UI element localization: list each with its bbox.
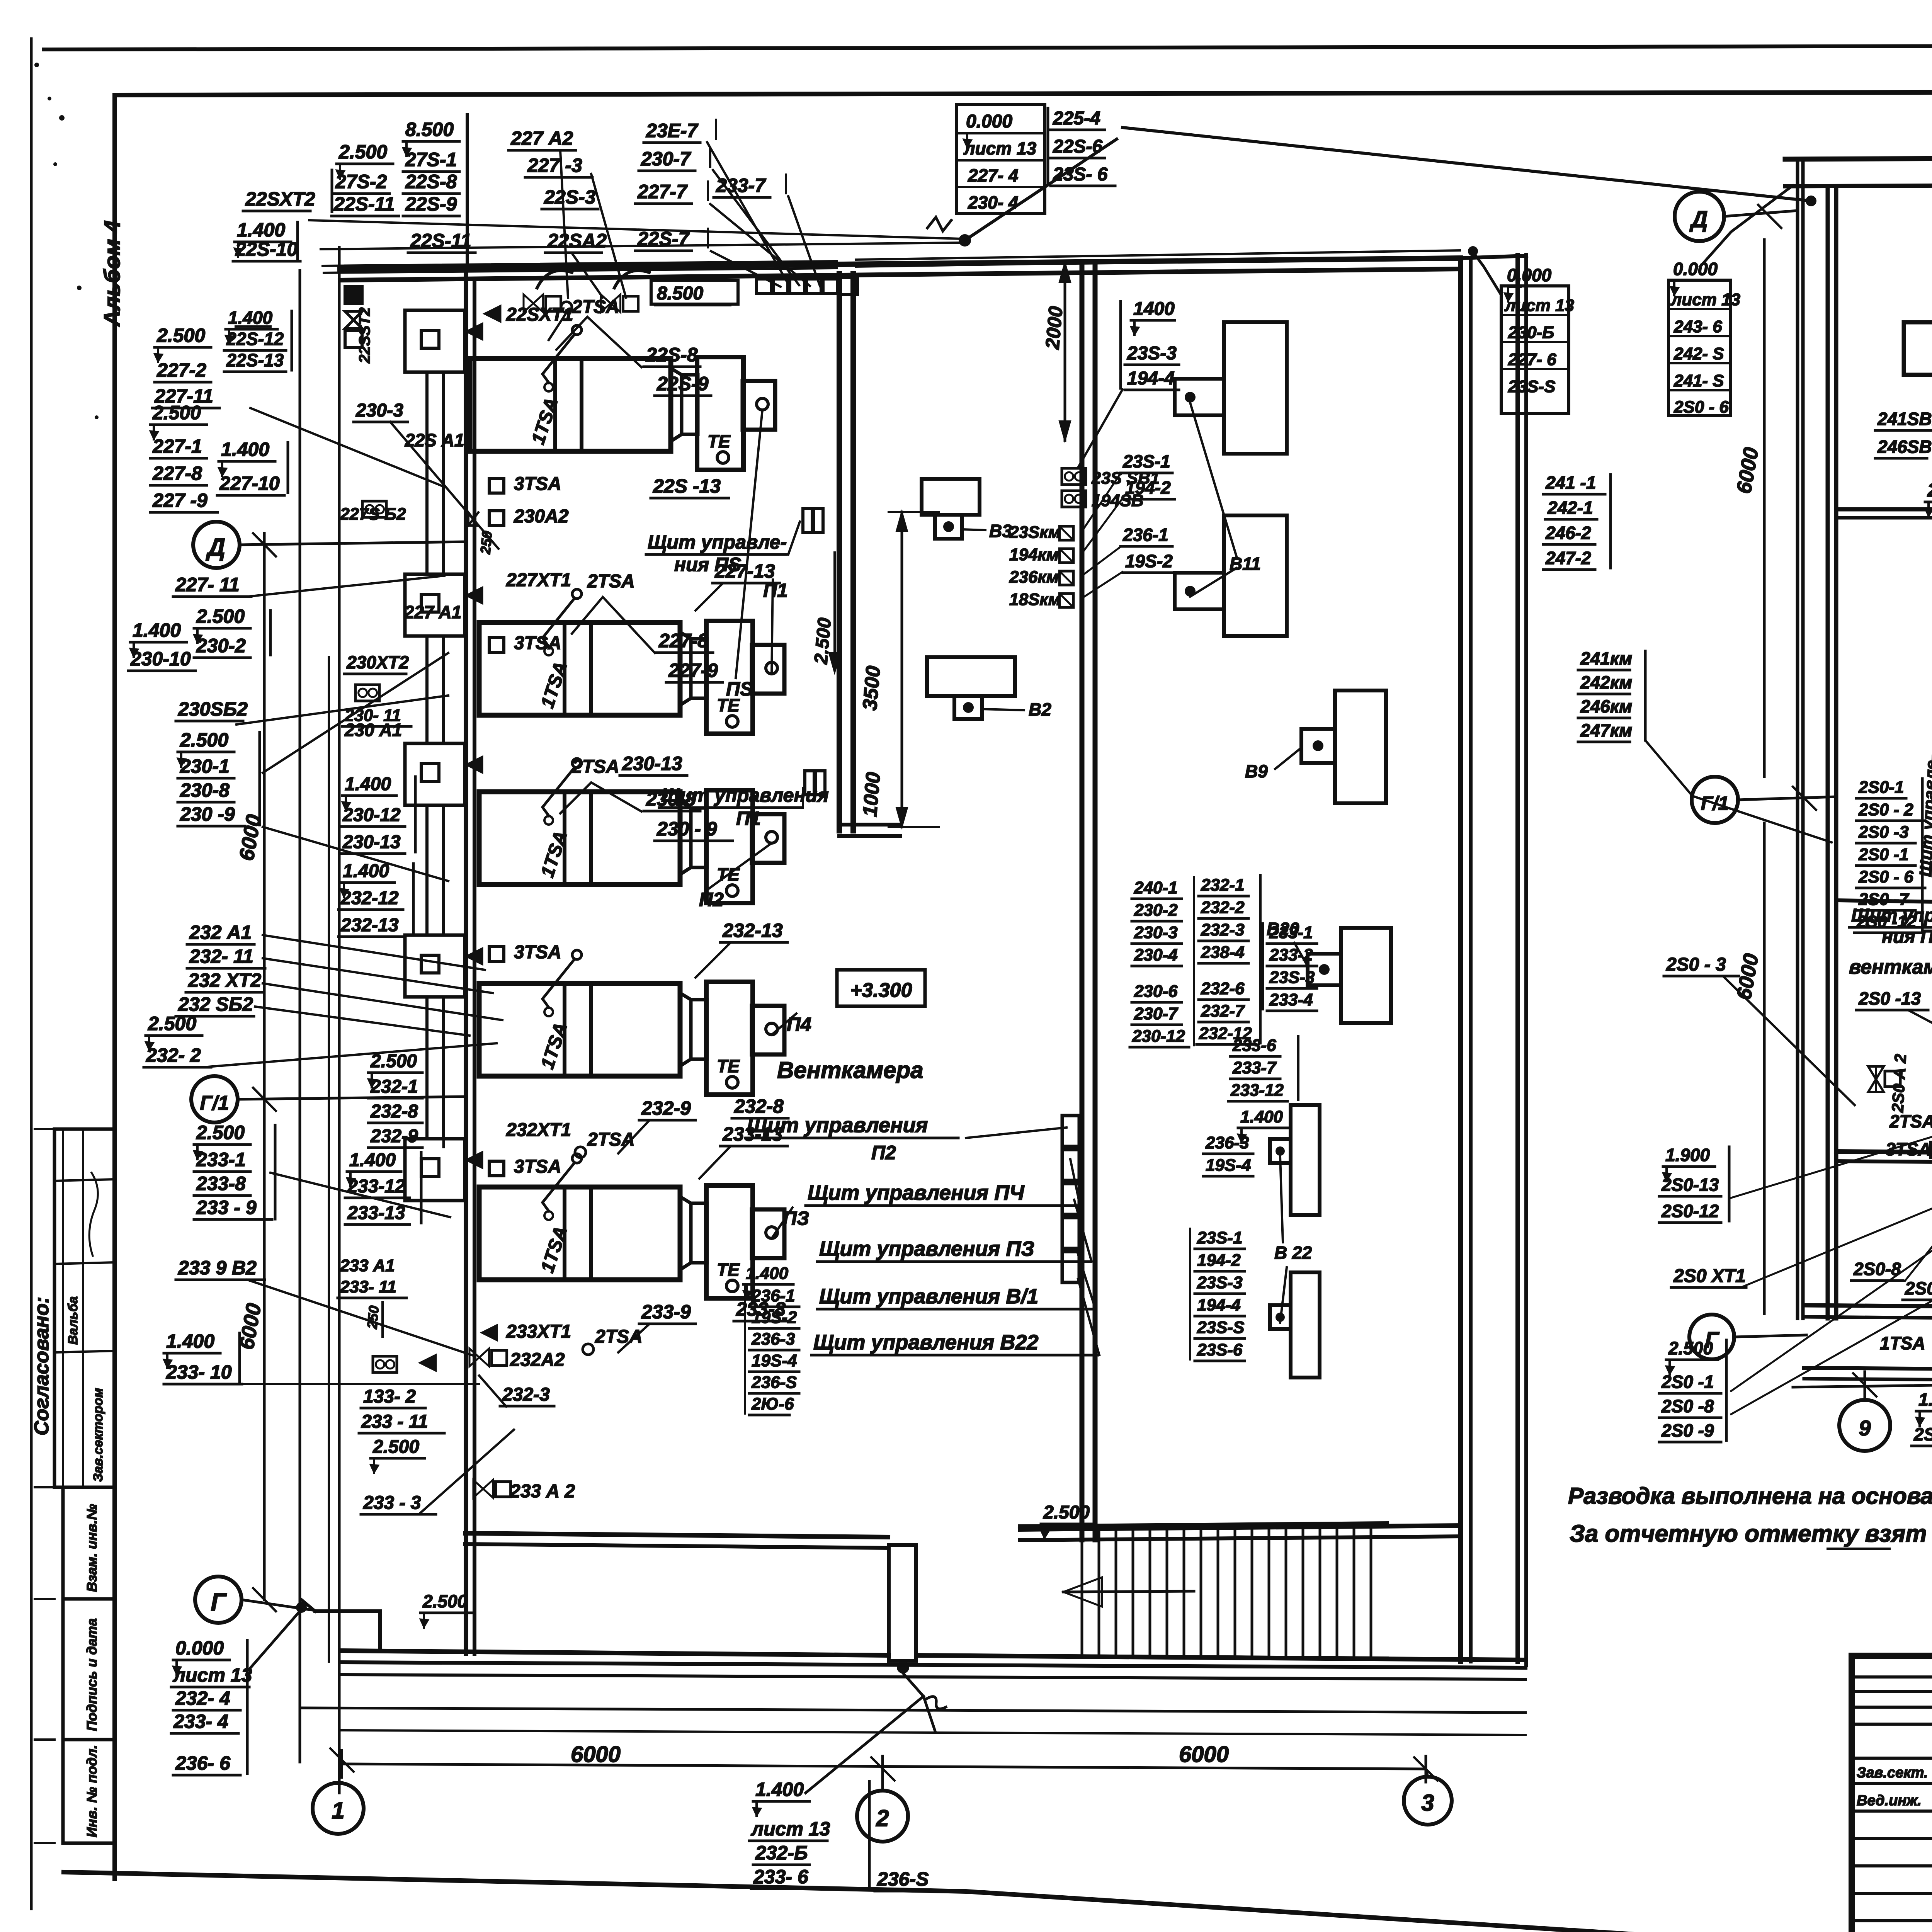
tray break symbol: [927, 217, 951, 231]
long leader verticals left margin: [299, 270, 301, 1762]
fan B11 lower: [1224, 515, 1287, 636]
svg-text:1.400: 1.400: [228, 308, 273, 328]
svg-text:233- 11: 233- 11: [340, 1277, 396, 1296]
svg-text:П2: П2: [871, 1142, 896, 1163]
svg-text:233-12: 233-12: [1230, 1081, 1284, 1100]
ink specks top left corner: [34, 63, 39, 67]
svg-text:236-1: 236-1: [751, 1286, 795, 1305]
stairs: [1020, 1523, 1387, 1526]
svg-text:22S-9: 22S-9: [405, 193, 457, 215]
svg-text:Щит управления В/1: Щит управления В/1: [819, 1285, 1038, 1308]
svg-text:233-6: 233-6: [1232, 1036, 1276, 1055]
fan B3: [922, 479, 980, 515]
svg-text:227 А2: 227 А2: [510, 128, 573, 149]
svg-text:0.000: 0.000: [1507, 265, 1552, 285]
svg-text:В3: В3: [989, 521, 1012, 541]
ref stack 0.000 right building left: [1668, 280, 1730, 415]
svg-text:23S-S: 23S-S: [1197, 1318, 1244, 1337]
fan unit 230 main casing: [479, 792, 680, 884]
fan unit 233 diffuser: [680, 1197, 691, 1270]
svg-text:242-1: 242-1: [1547, 498, 1593, 518]
svg-text:23Sкм: 23Sкм: [1009, 523, 1061, 542]
svg-text:2S0 -7: 2S0 -7: [1858, 890, 1910, 909]
svg-text:3ТSА: 3ТSА: [514, 1156, 561, 1177]
fan unit 232 main casing: [479, 983, 680, 1076]
svg-text:2.500: 2.500: [180, 729, 228, 751]
svg-text:9: 9: [1859, 1416, 1871, 1440]
svg-text:22SХТ2: 22SХТ2: [245, 188, 315, 210]
svg-text:232-Б: 232-Б: [755, 1842, 808, 1864]
axis circle G1 left: [191, 1076, 238, 1122]
svg-text:2.500: 2.500: [370, 1051, 417, 1071]
svg-text:230-8: 230-8: [180, 779, 230, 801]
svg-text:22S-3: 22S-3: [544, 186, 596, 208]
svg-text:2.500: 2.500: [422, 1591, 468, 1611]
svg-text:22S-12: 22S-12: [226, 329, 284, 349]
svg-text:2ТSА: 2ТSА: [1889, 1111, 1932, 1131]
svg-text:241км: 241км: [1580, 648, 1632, 668]
svg-text:1.400: 1.400: [237, 219, 285, 241]
fan unit 227 main casing: [479, 622, 680, 715]
svg-text:236-S: 236-S: [877, 1868, 929, 1890]
svg-text:23S-3: 23S-3: [1197, 1273, 1242, 1292]
svg-text:227-2: 227-2: [156, 359, 206, 381]
fan unit 225 wall symbols: [466, 323, 483, 340]
panel P1 on wall B: [805, 771, 814, 795]
svg-text:22SА2: 22SА2: [547, 230, 607, 252]
svg-text:233- 6: 233- 6: [753, 1866, 809, 1888]
svg-text:1400: 1400: [1133, 299, 1175, 319]
svg-text:236-S: 236-S: [751, 1373, 797, 1392]
svg-text:1.400: 1.400: [345, 774, 391, 794]
leader from door stub to sheet ref stack: [806, 1673, 923, 1793]
svg-text:23S- 6: 23S- 6: [1053, 164, 1108, 185]
svg-text:230-13: 230-13: [342, 832, 401, 852]
svg-text:27S-1: 27S-1: [405, 149, 457, 170]
svg-text:23S-6: 23S-6: [1197, 1340, 1243, 1359]
svg-text:233 А 2: 233 А 2: [510, 1481, 575, 1502]
svg-text:233-1: 233-1: [196, 1149, 246, 1170]
svg-text:227- 11: 227- 11: [175, 574, 240, 595]
svg-text:Щит управления ПЧ: Щит управления ПЧ: [808, 1181, 1025, 1204]
svg-text:230-7: 230-7: [641, 148, 691, 170]
svg-text:232ХТ1: 232ХТ1: [506, 1120, 571, 1140]
svg-text:0.000: 0.000: [1673, 259, 1718, 279]
svg-text:232-9: 232-9: [641, 1097, 691, 1119]
svg-text:3500: 3500: [859, 665, 885, 711]
left building bottom thin offset line: [301, 1708, 1526, 1713]
left building corridor wall west: [837, 274, 842, 831]
svg-text:3: 3: [1421, 1790, 1434, 1816]
svg-text:236-3: 236-3: [1205, 1133, 1249, 1152]
svg-text:232-13: 232-13: [340, 915, 399, 935]
axis circle D left: [193, 522, 240, 568]
fan unit 227 intake box on wall: [405, 574, 465, 636]
svg-text:240-1: 240-1: [1134, 878, 1178, 897]
svg-text:23S-1: 23S-1: [1197, 1228, 1242, 1247]
svg-text:1: 1: [332, 1798, 344, 1823]
svg-text:246SВ: 246SВ: [1877, 437, 1932, 457]
svg-text:2S0 - 6: 2S0 - 6: [1673, 398, 1729, 417]
title block signature table rows: [1852, 1675, 1932, 1679]
fan B14 unit 1: [1904, 322, 1932, 375]
svg-text:2S0 - 2: 2S0 - 2: [1858, 800, 1913, 819]
svg-text:лист 13: лист 13: [1504, 296, 1574, 315]
wall mid symbols oo boxes: [362, 501, 386, 517]
svg-text:3ТSА: 3ТSА: [514, 942, 561, 963]
svg-text:1ТSА: 1ТSА: [1880, 1333, 1925, 1353]
svg-text:1.400: 1.400: [1918, 1389, 1932, 1410]
svg-text:2S0 -9: 2S0 -9: [1661, 1420, 1714, 1440]
svg-text:232А2: 232А2: [510, 1350, 565, 1370]
svg-text:233-13: 233-13: [347, 1203, 405, 1223]
svg-text:230 -9: 230 -9: [180, 803, 235, 825]
fan B11 upper: [1224, 322, 1287, 454]
stairs direction arrow: [1063, 1591, 1194, 1592]
svg-text:1000: 1000: [859, 771, 885, 818]
svg-text:Д: Д: [1689, 206, 1708, 232]
axis G circle right: [1689, 1315, 1734, 1359]
svg-text:233-2: 233-2: [1269, 946, 1313, 964]
title block outer rectangle: [1852, 1656, 1932, 1932]
svg-text:2S0 -1: 2S0 -1: [1661, 1372, 1714, 1392]
fan unit 232 TE box: [706, 982, 753, 1095]
svg-text:247км: 247км: [1580, 720, 1632, 740]
long leader lines bottom right building: [1731, 1051, 1932, 1391]
svg-text:Вальба: Вальба: [66, 1296, 80, 1345]
svg-text:233 А1: 233 А1: [340, 1256, 395, 1275]
svg-text:2S0 А 2: 2S0 А 2: [1888, 1053, 1910, 1113]
svg-text:236- 6: 236- 6: [175, 1752, 231, 1774]
svg-text:227-1: 227-1: [152, 435, 202, 457]
svg-text:247-2: 247-2: [1545, 548, 1591, 568]
ventkamera top wall right building: [1836, 900, 1932, 902]
top valve symbol 2: [601, 294, 611, 312]
ref stack 0.000 between buildings: [1501, 286, 1569, 413]
svg-text:230-7: 230-7: [1134, 1004, 1179, 1023]
svg-text:27S-2: 27S-2: [335, 171, 387, 192]
svg-text:2S0 -1: 2S0 -1: [1858, 845, 1909, 864]
svg-text:22SХТ1: 22SХТ1: [506, 304, 573, 325]
svg-text:3ТSА: 3ТSА: [514, 474, 561, 494]
svg-text:227 А1: 227 А1: [404, 602, 461, 622]
svg-text:227ХТ1: 227ХТ1: [506, 570, 571, 590]
fan unit 225 label ПS: [736, 410, 762, 678]
svg-text:22S-10: 22S-10: [235, 238, 298, 260]
svg-text:23Е-7: 23Е-7: [646, 120, 699, 141]
svg-text:2S0-13: 2S0-13: [1661, 1175, 1719, 1195]
fan B20: [1341, 928, 1391, 1023]
svg-text:лист 13: лист 13: [173, 1664, 252, 1686]
svg-text:ТЕ: ТЕ: [707, 431, 731, 451]
svg-text:В 22: В 22: [1274, 1243, 1312, 1263]
svg-text:227-10: 227-10: [219, 473, 280, 494]
left building right wall outer pair: [1515, 255, 1520, 1662]
svg-text:133- 2: 133- 2: [363, 1386, 416, 1407]
svg-text:2.500: 2.500: [148, 1013, 196, 1034]
sheet bottom frame line: [64, 1872, 1852, 1932]
svg-text:лист 13: лист 13: [751, 1818, 830, 1840]
svg-text:2ТSА: 2ТSА: [587, 1129, 635, 1150]
svg-text:1.400: 1.400: [746, 1264, 789, 1283]
svg-text:Венткамера: Венткамера: [777, 1057, 923, 1083]
svg-text:2: 2: [876, 1805, 889, 1831]
junction dot and diagonal to ref table: [959, 234, 971, 247]
svg-text:1.400: 1.400: [349, 1150, 396, 1170]
svg-text:233-9: 233-9: [641, 1301, 691, 1323]
fan unit 227 label П1: [772, 580, 773, 674]
svg-text:232-7: 232-7: [1201, 1002, 1245, 1020]
left building top wall: [340, 258, 1461, 269]
svg-text:Альбом 4: Альбом 4: [100, 220, 125, 327]
svg-text:Разводка выполнена на основа: Разводка выполнена на основании схем сое…: [1568, 1483, 1932, 1509]
sheet left frame vertical: [112, 95, 117, 1879]
fan unit 232 wall symbols: [466, 948, 483, 965]
svg-text:1.400: 1.400: [1240, 1107, 1283, 1126]
door stub wall at bottom: [889, 1545, 916, 1661]
svg-text:194-4: 194-4: [1127, 368, 1175, 389]
svg-text:232 SБ2: 232 SБ2: [178, 993, 253, 1015]
axis G1 circle right: [1692, 777, 1738, 823]
svg-text:В2: В2: [1029, 699, 1051, 719]
svg-text:Зав.сект.: Зав.сект.: [1857, 1765, 1928, 1781]
svg-text:П2: П2: [699, 889, 724, 910]
svg-text:лист 13: лист 13: [1670, 290, 1740, 309]
svg-text:233 - 9: 233 - 9: [196, 1197, 257, 1218]
bottom dim line right building: [1793, 1378, 1932, 1387]
svg-text:230-6: 230-6: [1134, 982, 1178, 1001]
svg-text:230-13: 230-13: [622, 753, 682, 774]
svg-text:194-2: 194-2: [1197, 1251, 1241, 1270]
stamp box 1 approvals: [54, 1129, 115, 1487]
boxed label 8.500: [651, 280, 738, 304]
svg-text:194км: 194км: [1009, 545, 1059, 564]
svg-text:23S-3: 23S-3: [1269, 968, 1315, 987]
svg-text:2000: 2000: [1041, 305, 1067, 350]
svg-text:В9: В9: [1245, 761, 1268, 781]
svg-text:225-4: 225-4: [1053, 108, 1100, 129]
fan B9: [1335, 690, 1386, 803]
svg-text:0.000: 0.000: [175, 1637, 224, 1659]
fan unit 233 intake box on wall: [405, 1139, 465, 1201]
fan unit 230 TE box: [706, 790, 753, 903]
svg-text:233 - 3: 233 - 3: [363, 1493, 421, 1513]
left building bottom second thin line: [342, 1730, 1526, 1735]
svg-text:230-12: 230-12: [1132, 1027, 1185, 1046]
svg-text:1.900: 1.900: [1665, 1145, 1710, 1165]
top valve symbol 1: [524, 294, 533, 312]
svg-text:230-10: 230-10: [130, 648, 191, 670]
fan unit 225 TE box: [697, 357, 743, 470]
svg-text:233-1: 233-1: [1269, 923, 1313, 942]
svg-text:+3.300: +3.300: [850, 979, 912, 1002]
svg-text:Щит управления В22: Щит управления В22: [813, 1331, 1038, 1354]
svg-text:За отчетную отметку взят у: За отчетную отметку взят уровень чистого…: [1570, 1520, 1932, 1547]
axis circle 9: [1839, 1400, 1890, 1451]
svg-text:Щит управле-: Щит управле-: [648, 531, 787, 553]
svg-text:Согласовано:: Согласовано:: [31, 1297, 53, 1435]
fan unit 225 main casing: [470, 359, 671, 451]
svg-text:232-12: 232-12: [340, 888, 399, 908]
svg-text:230-3: 230-3: [1134, 923, 1178, 942]
fan unit 232 diffuser: [680, 993, 691, 1066]
svg-text:232-13: 232-13: [722, 920, 783, 941]
svg-text:233ХТ1: 233ХТ1: [506, 1321, 571, 1342]
svg-text:1.400: 1.400: [755, 1779, 804, 1800]
left building bottom wall band: [342, 1651, 889, 1655]
svg-text:194-2: 194-2: [1125, 478, 1171, 498]
svg-text:22S-11: 22S-11: [333, 193, 395, 215]
svg-text:22SSТ2: 22SSТ2: [356, 307, 373, 364]
svg-text:227 -9: 227 -9: [152, 490, 207, 511]
svg-text:246км: 246км: [1580, 696, 1632, 716]
svg-text:1.400: 1.400: [133, 619, 181, 641]
svg-text:Подпись и дата: Подпись и дата: [84, 1618, 100, 1731]
panel P5 on wall B: [803, 509, 812, 532]
svg-text:22S-6: 22S-6: [1053, 136, 1102, 157]
svg-text:1.400: 1.400: [343, 861, 389, 881]
svg-text:250: 250: [477, 530, 495, 555]
stamp box 4 inv no podl: [63, 1740, 115, 1843]
valve 233A2: [473, 1480, 483, 1498]
svg-text:2.500: 2.500: [372, 1437, 419, 1457]
svg-text:194-4: 194-4: [1197, 1296, 1241, 1315]
fan unit 227 outlet box: [752, 645, 784, 694]
leader diagonals from -7 labels to KM squares: [707, 142, 788, 284]
svg-text:232-6: 232-6: [1201, 979, 1245, 998]
fan unit 230 intake box on wall: [405, 743, 465, 805]
left building inner wall B: [1080, 263, 1085, 1540]
svg-text:2S0 - 3: 2S0 - 3: [1666, 954, 1726, 975]
svg-text:232-3: 232-3: [502, 1384, 550, 1405]
svg-text:232- 11: 232- 11: [189, 946, 253, 967]
svg-text:233-7: 233-7: [1232, 1058, 1277, 1077]
fan unit 233 main casing: [479, 1187, 680, 1280]
svg-text:2.500: 2.500: [152, 402, 201, 423]
sheet inner top frame line: [116, 91, 1932, 95]
svg-text:22S А1: 22S А1: [405, 430, 464, 450]
svg-text:2.500: 2.500: [1043, 1502, 1090, 1523]
svg-text:232 А1: 232 А1: [189, 922, 252, 943]
extra leader diagonals left margin: [236, 696, 448, 724]
svg-text:242- S: 242- S: [1673, 344, 1724, 363]
svg-text:венткамера: венткамера: [1849, 956, 1932, 978]
svg-text:2S0 -8: 2S0 -8: [1661, 1396, 1714, 1416]
svg-text:232-3: 232-3: [1201, 920, 1245, 939]
svg-text:227-9: 227-9: [668, 660, 718, 681]
svg-text:2ТSА: 2ТSА: [587, 571, 635, 592]
axis circle G left: [195, 1577, 241, 1623]
top reference table 0.000 list13: [957, 105, 1045, 214]
svg-text:1.400: 1.400: [221, 439, 269, 460]
svg-text:233- 10: 233- 10: [166, 1361, 232, 1383]
fan unit 227 TE box: [706, 621, 753, 734]
svg-text:2.500: 2.500: [1668, 1338, 1713, 1358]
svg-text:230-12: 230-12: [342, 805, 401, 825]
svg-text:П1: П1: [736, 808, 761, 829]
svg-text:2S0-8: 2S0-8: [1853, 1259, 1901, 1279]
diagonal link to right building: [1122, 128, 1811, 201]
svg-text:ПЗ: ПЗ: [783, 1207, 809, 1229]
axis D circle right: [1675, 192, 1724, 241]
svg-text:2S0-1: 2S0-1: [1858, 778, 1904, 797]
svg-text:23S-1: 23S-1: [1122, 451, 1170, 471]
left building right wall inner pair: [1458, 258, 1463, 1662]
left building left wall: [464, 268, 468, 1654]
svg-text:Щит управления ПЗ: Щит управления ПЗ: [819, 1237, 1034, 1260]
svg-text:Инв. № подл.: Инв. № подл.: [84, 1745, 100, 1837]
svg-text:2S0-10: 2S0-10: [1913, 1424, 1932, 1444]
sheet outer top border line: [44, 45, 1932, 49]
svg-text:2S0 - 6: 2S0 - 6: [1858, 867, 1913, 886]
svg-text:227S Б2: 227S Б2: [340, 505, 406, 524]
svg-text:18Sкм: 18Sкм: [1009, 590, 1061, 609]
svg-text:227-8: 227-8: [658, 630, 708, 651]
fan unit 233 outlet box: [752, 1209, 784, 1258]
svg-text:246-2: 246-2: [1545, 523, 1591, 543]
svg-text:233 - 11: 233 - 11: [361, 1412, 428, 1432]
fan unit 225 outlet box: [743, 381, 775, 430]
svg-text:238-4: 238-4: [1201, 943, 1245, 962]
inter-cluster duct verticals: [425, 372, 429, 574]
fan unit 233 wall symbols: [466, 1151, 483, 1168]
bottom dimension line: [342, 1764, 1426, 1769]
svg-text:2S0-9: 2S0-9: [1905, 1278, 1932, 1298]
valve 232A2: [469, 1349, 479, 1366]
svg-text:233 9 В2: 233 9 В2: [178, 1257, 257, 1279]
axis circle 2: [857, 1791, 908, 1842]
svg-text:Г: Г: [211, 1588, 227, 1616]
cable tray bundle above top wall: [309, 220, 962, 239]
svg-text:2.500: 2.500: [196, 605, 245, 627]
svg-text:2S0 -3: 2S0 -3: [1858, 823, 1909, 842]
svg-text:230-Б: 230-Б: [1508, 323, 1554, 342]
fan unit 233 TE box: [706, 1185, 753, 1298]
svg-text:233- 4: 233- 4: [173, 1711, 228, 1732]
svg-text:2.500: 2.500: [1927, 480, 1932, 501]
svg-text:232 ХТ2: 232 ХТ2: [188, 969, 261, 991]
svg-text:Г/1: Г/1: [200, 1092, 229, 1114]
svg-text:230 - 9: 230 - 9: [656, 818, 717, 840]
svg-text:250: 250: [364, 1305, 382, 1330]
svg-text:230SБ2: 230SБ2: [178, 698, 248, 720]
svg-text:ТЕ: ТЕ: [717, 1260, 740, 1280]
svg-text:230-3: 230-3: [355, 400, 403, 421]
svg-text:230-1: 230-1: [180, 755, 230, 777]
svg-text:230-4: 230-4: [1134, 946, 1178, 964]
svg-text:232-8: 232-8: [370, 1101, 418, 1122]
svg-text:227- 4: 227- 4: [968, 165, 1018, 185]
left building corridor wall east: [850, 274, 856, 831]
svg-text:2Ю-6: 2Ю-6: [751, 1395, 794, 1413]
oo pair 235SB1 194SB: [1062, 468, 1086, 485]
boxed label +3.300 left: [837, 970, 925, 1006]
svg-text:227 -3: 227 -3: [527, 155, 582, 176]
svg-text:Зав.сектором: Зав.сектором: [91, 1388, 105, 1482]
svg-text:2ТSА: 2ТSА: [571, 757, 619, 777]
svg-text:227-7: 227-7: [637, 181, 688, 202]
left building bottom step at west end: [315, 1611, 380, 1651]
fan unit 227 diffuser: [680, 632, 691, 705]
fan unit 232 label П4: [772, 1014, 796, 1035]
svg-text:Вед.инж.: Вед.инж.: [1857, 1793, 1922, 1809]
corridor dim line vertical: [901, 512, 903, 827]
svg-text:2.500: 2.500: [156, 325, 205, 346]
svg-text:6000: 6000: [1179, 1742, 1229, 1767]
right building left wall: [1796, 159, 1799, 1318]
svg-text:22S -13: 22S -13: [653, 475, 721, 497]
right building bottom band: [1806, 1305, 1932, 1310]
